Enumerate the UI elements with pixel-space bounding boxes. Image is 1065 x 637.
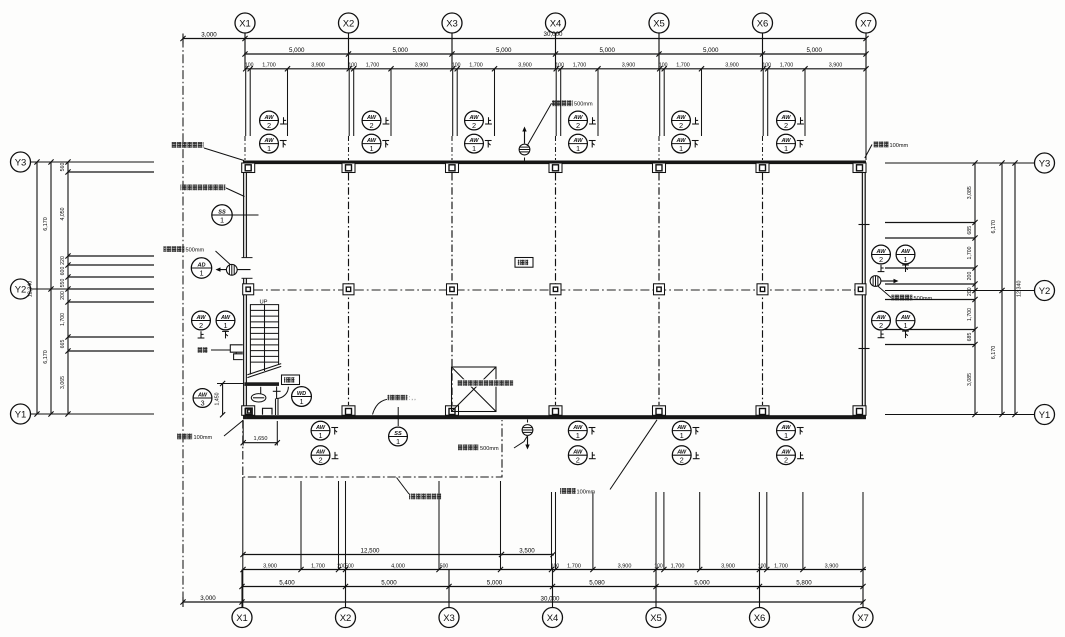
lift opening hatch square xyxy=(452,367,497,412)
wash sink fixture xyxy=(230,345,243,360)
toilet label box xyxy=(282,375,300,385)
grid axis circle Y2 left xyxy=(11,279,31,299)
column X2 middle row xyxy=(343,284,354,295)
svg-text:5,000: 5,000 xyxy=(703,47,719,54)
label lift opening xyxy=(456,379,514,386)
label fan 500mm bottom xyxy=(458,437,527,452)
svg-text:1: 1 xyxy=(396,437,400,446)
svg-text:5,000: 5,000 xyxy=(599,47,615,54)
right wall window tick upper xyxy=(859,224,870,226)
right dimension vertical detail xyxy=(967,160,978,417)
svg-text:3,900: 3,900 xyxy=(825,563,839,569)
svg-text:3,900: 3,900 xyxy=(721,563,735,569)
svg-text:5,080: 5,080 xyxy=(589,579,605,586)
column X1 bottom row xyxy=(242,406,255,416)
svg-text:200: 200 xyxy=(967,272,973,281)
door symbol AD1 left xyxy=(191,258,211,278)
column X4 middle row xyxy=(550,284,561,295)
svg-text:X1: X1 xyxy=(239,18,251,29)
column X3 bottom row xyxy=(446,406,459,416)
window symbol AW2 top bay1 xyxy=(260,111,279,130)
svg-text:UP: UP xyxy=(259,299,267,305)
svg-text:500mm: 500mm xyxy=(574,102,593,108)
warehouse label box xyxy=(515,258,533,268)
column X4 top row xyxy=(549,163,562,173)
eaves offset chain line left xyxy=(182,39,184,603)
svg-text:3,900: 3,900 xyxy=(415,62,429,68)
svg-text:1: 1 xyxy=(679,144,683,153)
svg-text:X4: X4 xyxy=(550,18,562,29)
window symbol AW1 top bay5 xyxy=(672,134,691,153)
canopy outline chain bottom xyxy=(243,420,502,477)
wall right xyxy=(862,161,865,420)
svg-text:5,000: 5,000 xyxy=(487,579,503,586)
svg-text:Y3: Y3 xyxy=(15,157,27,168)
dimension 1,450 toilet xyxy=(215,381,245,418)
svg-text:X5: X5 xyxy=(650,613,662,624)
svg-text:3,900: 3,900 xyxy=(622,62,636,68)
column X5 middle row xyxy=(654,284,665,295)
column X7 top row xyxy=(853,163,866,173)
window symbol AW2 top bay3 xyxy=(465,111,484,130)
column X2 top row xyxy=(342,163,355,173)
dimension line 5,000 bays bottom xyxy=(239,579,865,589)
window symbol AW2 right wall y254 xyxy=(872,245,891,264)
door frame ticks AD1 in left wall xyxy=(242,258,253,279)
svg-text:200: 200 xyxy=(967,287,973,296)
window symbol AW1 left xyxy=(216,311,235,338)
door WD1 leaf and swing xyxy=(273,387,289,400)
svg-text:5,000: 5,000 xyxy=(496,47,512,54)
svg-text:1,700: 1,700 xyxy=(366,62,380,68)
svg-text:X3: X3 xyxy=(443,613,455,624)
svg-text:12,340: 12,340 xyxy=(28,281,34,298)
grid axis circle Y1 right xyxy=(1035,405,1055,425)
window symbol AW2 top bay5 xyxy=(672,111,691,130)
svg-text:2: 2 xyxy=(879,321,883,330)
svg-text:X3: X3 xyxy=(446,18,458,29)
left dimension vertical detail xyxy=(60,159,71,416)
svg-text:500mm: 500mm xyxy=(480,446,499,452)
door symbol WD1 toilet xyxy=(292,387,312,407)
svg-text:6,170: 6,170 xyxy=(43,350,49,364)
svg-text:Y2: Y2 xyxy=(1039,286,1051,297)
toilet corner fixtures xyxy=(246,408,272,415)
svg-text:4,000: 4,000 xyxy=(391,563,405,569)
svg-text:2: 2 xyxy=(472,121,476,130)
svg-text:6,170: 6,170 xyxy=(991,346,997,360)
svg-text:1,450: 1,450 xyxy=(215,392,221,405)
window symbol AW1 top bay6 xyxy=(777,134,796,153)
svg-text:X7: X7 xyxy=(860,18,872,29)
wall top xyxy=(243,161,866,165)
svg-text:Y1: Y1 xyxy=(1039,410,1051,421)
left extension lines xyxy=(68,172,154,351)
grid axis circle X6 top xyxy=(753,13,773,33)
grid axis circle Y3 left xyxy=(11,152,31,172)
column X1 middle row xyxy=(243,284,254,295)
window symbol AW2 bottom 1 xyxy=(311,446,330,465)
window symbol AW3 left xyxy=(193,389,212,408)
svg-text:3,085: 3,085 xyxy=(967,186,973,199)
column X3 middle row xyxy=(447,284,458,295)
svg-text:1: 1 xyxy=(903,255,907,264)
svg-text:1: 1 xyxy=(472,144,476,153)
shutter SS1 bottom center line xyxy=(397,407,399,426)
svg-text:X7: X7 xyxy=(857,613,869,624)
svg-text:500mm: 500mm xyxy=(186,248,205,254)
svg-text:3,900: 3,900 xyxy=(829,62,843,68)
svg-text:3,900: 3,900 xyxy=(311,62,325,68)
svg-text:: , ,: : , , xyxy=(409,396,416,402)
svg-text:30,000: 30,000 xyxy=(544,31,563,38)
svg-text:2: 2 xyxy=(576,456,580,465)
grid axis circle X7 bottom xyxy=(853,608,873,628)
svg-text:5,000: 5,000 xyxy=(392,47,408,54)
window symbol AW2 top bay6 xyxy=(777,111,796,130)
window symbol AW2 top bay4 xyxy=(569,111,588,130)
svg-text:5,000: 5,000 xyxy=(289,47,305,54)
ventilation fan right wall with arrow xyxy=(870,276,898,287)
svg-text:X6: X6 xyxy=(754,613,766,624)
toilet room top wall xyxy=(245,382,280,386)
svg-text:100: 100 xyxy=(762,62,771,68)
grid axis circle Y1 left xyxy=(11,404,31,424)
grid chain lines vertical interior xyxy=(349,173,763,405)
svg-text:5,000: 5,000 xyxy=(806,47,822,54)
window symbol AW1 top bay4 xyxy=(569,134,588,153)
svg-text:685: 685 xyxy=(967,333,973,342)
window jamb extension lines top xyxy=(246,69,866,160)
svg-text:1,700: 1,700 xyxy=(774,563,788,569)
dimension line window offsets top xyxy=(243,62,869,71)
svg-text:1,700: 1,700 xyxy=(60,313,66,326)
svg-text:100: 100 xyxy=(245,62,254,68)
window symbol AW1 right wall y320 xyxy=(896,311,915,330)
svg-text:1: 1 xyxy=(784,431,788,440)
svg-text:685: 685 xyxy=(967,226,973,235)
svg-text:2: 2 xyxy=(680,456,684,465)
svg-text:5,800: 5,800 xyxy=(796,579,812,586)
window symbol AW2 right wall y320 xyxy=(872,311,891,330)
grid axis circle X6 bottom xyxy=(750,608,770,628)
svg-text:2: 2 xyxy=(199,321,203,330)
ventilation fan top with arrow xyxy=(519,127,530,161)
grid axis circle Y3 right xyxy=(1035,153,1055,173)
svg-text:3,900: 3,900 xyxy=(618,563,632,569)
staircase xyxy=(247,304,281,377)
column X4 bottom row xyxy=(549,406,562,416)
svg-text:5,000: 5,000 xyxy=(381,579,397,586)
wall bottom xyxy=(243,415,866,419)
svg-text:500mm: 500mm xyxy=(914,296,933,302)
dimension line window offsets bottom xyxy=(240,563,866,572)
svg-text:1: 1 xyxy=(220,215,224,224)
column X5 top row xyxy=(653,163,666,173)
svg-text:1,700: 1,700 xyxy=(967,246,973,259)
svg-text:5,400: 5,400 xyxy=(279,579,295,586)
grid stub chain lines above wall xyxy=(245,136,763,160)
svg-text:1: 1 xyxy=(576,431,580,440)
right dimension vertical 6,170 pair xyxy=(991,160,1005,417)
svg-text:12,500: 12,500 xyxy=(361,547,380,554)
svg-text:1,700: 1,700 xyxy=(573,62,587,68)
svg-text:500: 500 xyxy=(440,563,449,569)
column X7 middle row xyxy=(855,284,866,295)
svg-text:100: 100 xyxy=(659,62,668,68)
right extension lines xyxy=(885,223,975,345)
svg-text:100: 100 xyxy=(348,62,357,68)
shutter symbol SS1 left xyxy=(212,205,259,225)
grid axis circle X7 top xyxy=(856,13,876,33)
label eaves note bottom xyxy=(397,478,442,500)
svg-text:X6: X6 xyxy=(757,18,769,29)
window symbol AW2 left xyxy=(192,311,211,338)
door swing arrow AD1 and fan left wall xyxy=(216,264,251,275)
grid axis circle X2 bottom xyxy=(336,608,356,628)
label wash xyxy=(197,347,230,353)
svg-text:1: 1 xyxy=(576,144,580,153)
svg-text:1: 1 xyxy=(199,268,203,277)
svg-text:1: 1 xyxy=(223,321,227,330)
window symbol AW1 bottom 4 xyxy=(777,421,796,440)
svg-text:560: 560 xyxy=(60,163,66,172)
svg-text:1,700: 1,700 xyxy=(262,62,276,68)
svg-text:3,900: 3,900 xyxy=(518,62,532,68)
window symbol AW2 bottom 2 xyxy=(568,446,587,465)
svg-text:2: 2 xyxy=(576,121,580,130)
svg-text:1: 1 xyxy=(267,144,271,153)
svg-text:1,700: 1,700 xyxy=(780,62,794,68)
svg-text:2: 2 xyxy=(369,121,373,130)
shutter symbol SS1 bottom bay2 xyxy=(389,427,408,446)
svg-text:3,000: 3,000 xyxy=(201,32,217,39)
label floor drain note xyxy=(373,395,416,415)
dimension line 12,500 + 3,500 canopy bottom xyxy=(240,547,555,557)
svg-text:3: 3 xyxy=(200,398,204,407)
window symbol AW1 bottom 2 xyxy=(568,421,587,440)
grid chain line Y2 interior xyxy=(254,289,855,291)
svg-text:1,700: 1,700 xyxy=(469,62,483,68)
dimension 1,650 below wall xyxy=(241,421,280,446)
svg-text:2: 2 xyxy=(318,456,322,465)
label fan 500mm left xyxy=(164,246,231,265)
extension lines bottom xyxy=(243,477,863,608)
right dimension vertical 12,340 xyxy=(1012,160,1022,417)
column X3 top row xyxy=(446,163,459,173)
grid axis circle X4 bottom xyxy=(543,608,563,628)
window symbol AW2 bottom 4 xyxy=(777,446,796,465)
svg-text:1: 1 xyxy=(680,431,684,440)
svg-text:200: 200 xyxy=(60,291,66,300)
window symbol AW2 bottom 3 xyxy=(672,446,691,465)
overall dimension line 3,000 + 30,000 bottom xyxy=(180,595,865,607)
grid axis circle X5 top xyxy=(649,13,669,33)
svg-text:1,700: 1,700 xyxy=(671,563,685,569)
svg-text:550: 550 xyxy=(60,279,66,288)
svg-text:6,170: 6,170 xyxy=(991,220,997,234)
overall dimension line 3,000 + 30,000 top xyxy=(180,31,868,43)
svg-text:3,900: 3,900 xyxy=(725,62,739,68)
window symbol AW2 top bay2 xyxy=(362,111,381,130)
svg-text:1,700: 1,700 xyxy=(967,308,973,321)
svg-text:Y2: Y2 xyxy=(15,284,27,295)
right wall window tick lower xyxy=(859,348,870,350)
svg-text:X2: X2 xyxy=(343,18,355,29)
svg-text:X5: X5 xyxy=(653,18,665,29)
svg-text:3,900: 3,900 xyxy=(263,563,277,569)
svg-text:2: 2 xyxy=(784,456,788,465)
grid axis circle X4 top xyxy=(546,13,566,33)
column X5 bottom row xyxy=(653,406,666,416)
grid axis circle X2 top xyxy=(339,13,359,33)
svg-text:3,000: 3,000 xyxy=(200,595,216,602)
svg-text:1: 1 xyxy=(903,321,907,330)
grid axis circle X1 bottom xyxy=(232,608,252,628)
label downpipe 100mm bottom-left xyxy=(177,420,244,441)
ventilation fan bottom with arrow xyxy=(522,420,533,450)
svg-text:1,700: 1,700 xyxy=(311,563,325,569)
svg-text:2: 2 xyxy=(879,255,883,264)
svg-text:1: 1 xyxy=(784,144,788,153)
svg-text:100: 100 xyxy=(452,62,461,68)
svg-text:Y1: Y1 xyxy=(15,409,27,420)
svg-text:100mm: 100mm xyxy=(194,435,213,441)
window symbol AW1 top bay3 xyxy=(465,134,484,153)
column X6 middle row xyxy=(757,284,768,295)
svg-text:5,000: 5,000 xyxy=(694,579,710,586)
label lightweight electric shutter xyxy=(181,185,245,197)
svg-text:12,340: 12,340 xyxy=(1017,281,1023,298)
svg-text:100: 100 xyxy=(555,62,564,68)
svg-text:2: 2 xyxy=(784,121,788,130)
label fan 500mm right xyxy=(878,286,933,302)
svg-text:Y3: Y3 xyxy=(1039,158,1051,169)
svg-text:1,650: 1,650 xyxy=(254,436,268,442)
svg-text:100mm: 100mm xyxy=(577,490,596,496)
svg-text:6,170: 6,170 xyxy=(43,217,49,231)
toilet partition wall xyxy=(276,399,279,416)
svg-text:4,050: 4,050 xyxy=(60,207,66,220)
svg-text:100mm: 100mm xyxy=(890,143,909,149)
svg-text:1: 1 xyxy=(318,431,322,440)
svg-text:600: 600 xyxy=(60,267,66,276)
left dimension vertical 6,170 pair xyxy=(43,159,54,416)
svg-text:X4: X4 xyxy=(547,613,559,624)
svg-text:30,000: 30,000 xyxy=(541,595,560,602)
svg-text:3,500: 3,500 xyxy=(519,547,535,554)
column X7 bottom row xyxy=(853,406,866,416)
column X6 top row xyxy=(756,163,769,173)
svg-text:3,085: 3,085 xyxy=(967,373,973,386)
toilet fixture xyxy=(251,387,266,402)
column X1 top row xyxy=(242,163,255,173)
grid axis circle X3 bottom xyxy=(439,608,459,628)
window symbol AW1 right wall y254 xyxy=(896,245,915,264)
window symbol AW1 bottom 1 xyxy=(311,421,330,440)
grid axis circle Y2 right xyxy=(1035,281,1055,301)
grid axis circle X1 top xyxy=(235,13,255,33)
svg-text:220: 220 xyxy=(60,256,66,265)
label downpipe 100mm bottom-middle xyxy=(560,420,657,496)
svg-text:665: 665 xyxy=(60,340,66,349)
svg-text:1,700: 1,700 xyxy=(567,563,581,569)
label fan 500mm top xyxy=(527,100,593,146)
svg-text:3,065: 3,065 xyxy=(60,376,66,389)
svg-text:1: 1 xyxy=(369,144,373,153)
svg-text:2: 2 xyxy=(679,121,683,130)
window symbol AW1 top bay1 xyxy=(260,134,279,153)
label downpipe 100mm top-right xyxy=(865,142,909,159)
svg-text:X1: X1 xyxy=(236,613,248,624)
grid axis circle X3 top xyxy=(442,13,462,33)
svg-text:1,700: 1,700 xyxy=(676,62,690,68)
wall left xyxy=(244,161,247,420)
grid axis circle X5 bottom xyxy=(646,608,666,628)
svg-text:1: 1 xyxy=(299,397,303,406)
window symbol AW1 bottom 3 xyxy=(672,421,691,440)
label eaves note top-left xyxy=(172,142,245,161)
column X2 bottom row xyxy=(342,406,355,416)
column X6 bottom row xyxy=(756,406,769,416)
left dimension vertical 12,340 xyxy=(28,159,40,416)
dimension line 5,000 bays top xyxy=(242,47,868,57)
svg-text:2: 2 xyxy=(267,121,271,130)
svg-text:X2: X2 xyxy=(340,613,352,624)
window symbol AW1 top bay2 xyxy=(362,134,381,153)
